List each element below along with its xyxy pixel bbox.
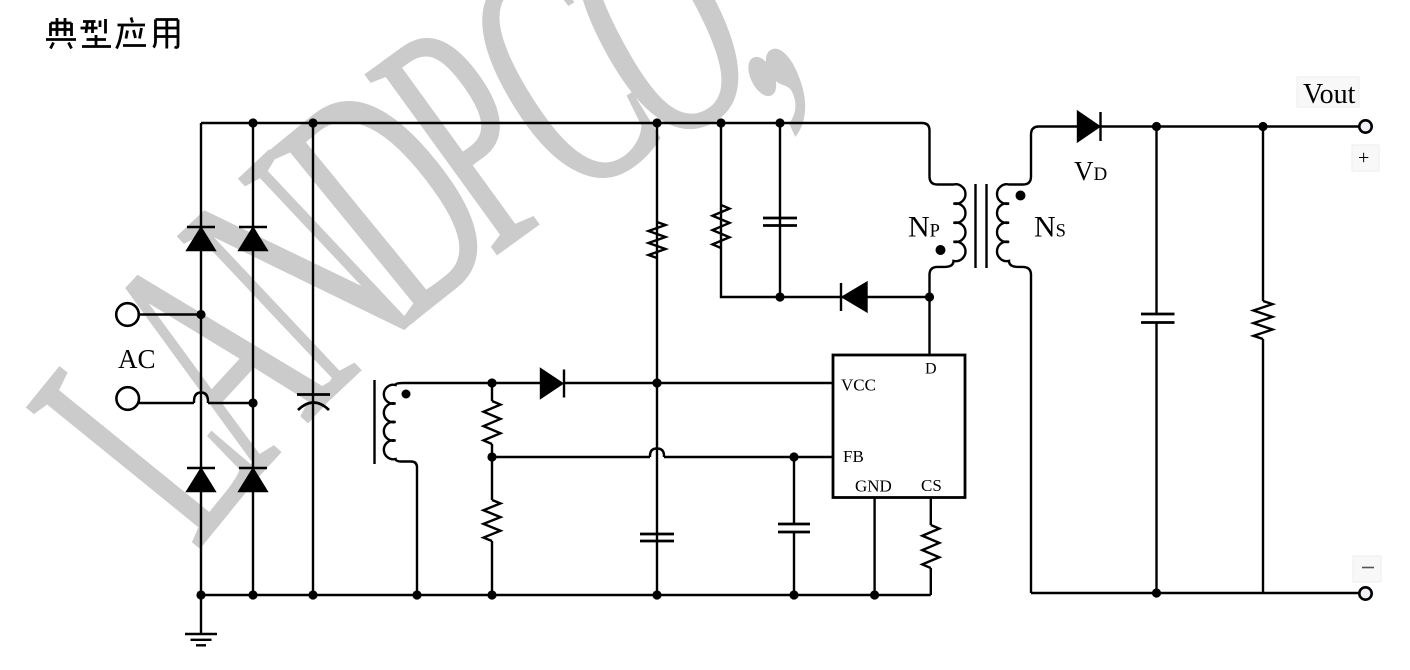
junction dot aux resistor top <box>487 378 496 387</box>
wire secondary bottom bus <box>1031 592 1359 594</box>
svg-text:Vout: Vout <box>1303 79 1356 110</box>
transformer T1 secondary winding NS <box>997 127 1039 594</box>
wire snubber R vertical <box>721 123 780 297</box>
wire aux winding bottom lead <box>401 462 417 596</box>
IC U1 box <box>833 355 965 498</box>
capacitor C1 bulk polarized <box>297 395 330 411</box>
aux winding core bar <box>373 380 375 464</box>
wire top bus <box>201 122 922 124</box>
junction dot AC2 <box>248 398 257 407</box>
label Vout background <box>1297 77 1359 107</box>
wire AC2 stub with hop over x=201 <box>139 402 253 404</box>
svg-text:VCC: VCC <box>841 376 876 395</box>
transformer phase dot primary <box>936 245 946 255</box>
junction dot snubber cap bottom <box>775 292 784 301</box>
title 典型应用 <box>46 18 178 49</box>
resistor R4 snubber <box>713 205 730 248</box>
junction dot output bottom <box>1152 588 1161 597</box>
svg-text:FB: FB <box>843 447 864 466</box>
junction dot AC1 <box>196 310 205 319</box>
wire output cap vertical <box>1155 127 1157 594</box>
label plus background <box>1352 145 1379 171</box>
terminal AC2 <box>116 387 139 410</box>
svg-text:AC: AC <box>118 344 156 374</box>
junction dot fb cap <box>789 452 798 461</box>
junction dots bottom bus <box>196 590 205 599</box>
wire bottom primary bus <box>201 594 931 596</box>
junction dot vcc line <box>652 378 661 387</box>
label minus <box>1362 567 1374 569</box>
wire output res vertical <box>1262 127 1264 594</box>
hop on AC2 wire <box>194 393 208 404</box>
svg-text:+: + <box>1358 147 1369 169</box>
resistor R2 aux divider bottom <box>484 500 501 541</box>
aux winding L1 <box>384 383 403 462</box>
transformer T1 core <box>976 184 987 268</box>
wire bridge vertical 2 <box>252 123 254 595</box>
label minus background <box>1353 556 1381 582</box>
diode D5 vcc <box>541 370 564 398</box>
capacitor C2 snubber <box>763 218 797 226</box>
wire FB cap vertical <box>793 457 795 595</box>
wire vcc dropper vertical <box>656 123 658 595</box>
junction dot fb divider <box>487 452 496 461</box>
svg-text:CS: CS <box>921 476 942 495</box>
wire snubber diode line <box>780 296 930 298</box>
svg-text:NS: NS <box>1034 211 1066 244</box>
capacitor C5 output <box>1141 314 1175 323</box>
resistor R3 vcc dropper <box>649 222 666 258</box>
ground symbol <box>185 634 217 645</box>
svg-text:VD: VD <box>1074 156 1107 186</box>
resistor R6 output load <box>1254 301 1273 339</box>
wire ground stem <box>200 595 202 633</box>
wire secondary output line <box>1039 125 1359 127</box>
hop on FB wire <box>650 449 664 458</box>
diode D4 bridge <box>239 468 267 491</box>
aux winding phase dot <box>402 390 411 399</box>
junction dots top bus <box>248 118 257 127</box>
terminal AC1 <box>116 303 139 326</box>
capacitor C4 fb <box>778 524 810 532</box>
main wire group <box>139 123 1359 633</box>
diode D1 bridge <box>187 227 215 250</box>
wire FB line with hop over x=657 <box>492 456 833 458</box>
terminal Vout plus <box>1359 120 1371 132</box>
wire snubber C vertical <box>779 123 781 297</box>
diode VD output <box>1078 112 1101 141</box>
wire GND pin vertical <box>873 498 875 596</box>
svg-text:NP: NP <box>908 211 940 244</box>
transformer phase dot secondary <box>1016 191 1026 201</box>
wire VCC line <box>403 382 833 384</box>
junction dot drain node <box>925 292 934 301</box>
transformer T1 primary winding NP <box>922 123 965 297</box>
wire AC1 stub <box>139 313 201 315</box>
resistor R1 aux divider top <box>484 401 501 444</box>
diode D6 snubber <box>841 283 867 311</box>
terminal Vout minus <box>1359 587 1371 599</box>
svg-text:D: D <box>925 361 937 378</box>
wire left vertical AC line 1 <box>200 123 202 595</box>
wire CS pin vertical <box>930 498 932 596</box>
svg-text:GND: GND <box>855 477 892 496</box>
wire D pin vertical <box>928 297 930 355</box>
resistor R5 current sense <box>922 525 939 568</box>
capacitor C3 vcc <box>640 534 674 541</box>
wire R1 R2 divider vertical <box>491 383 493 595</box>
wire bulk cap vertical <box>312 123 314 595</box>
junction dots output line <box>1152 122 1161 131</box>
diode D2 bridge <box>239 227 267 250</box>
diode D3 bridge <box>187 468 215 491</box>
